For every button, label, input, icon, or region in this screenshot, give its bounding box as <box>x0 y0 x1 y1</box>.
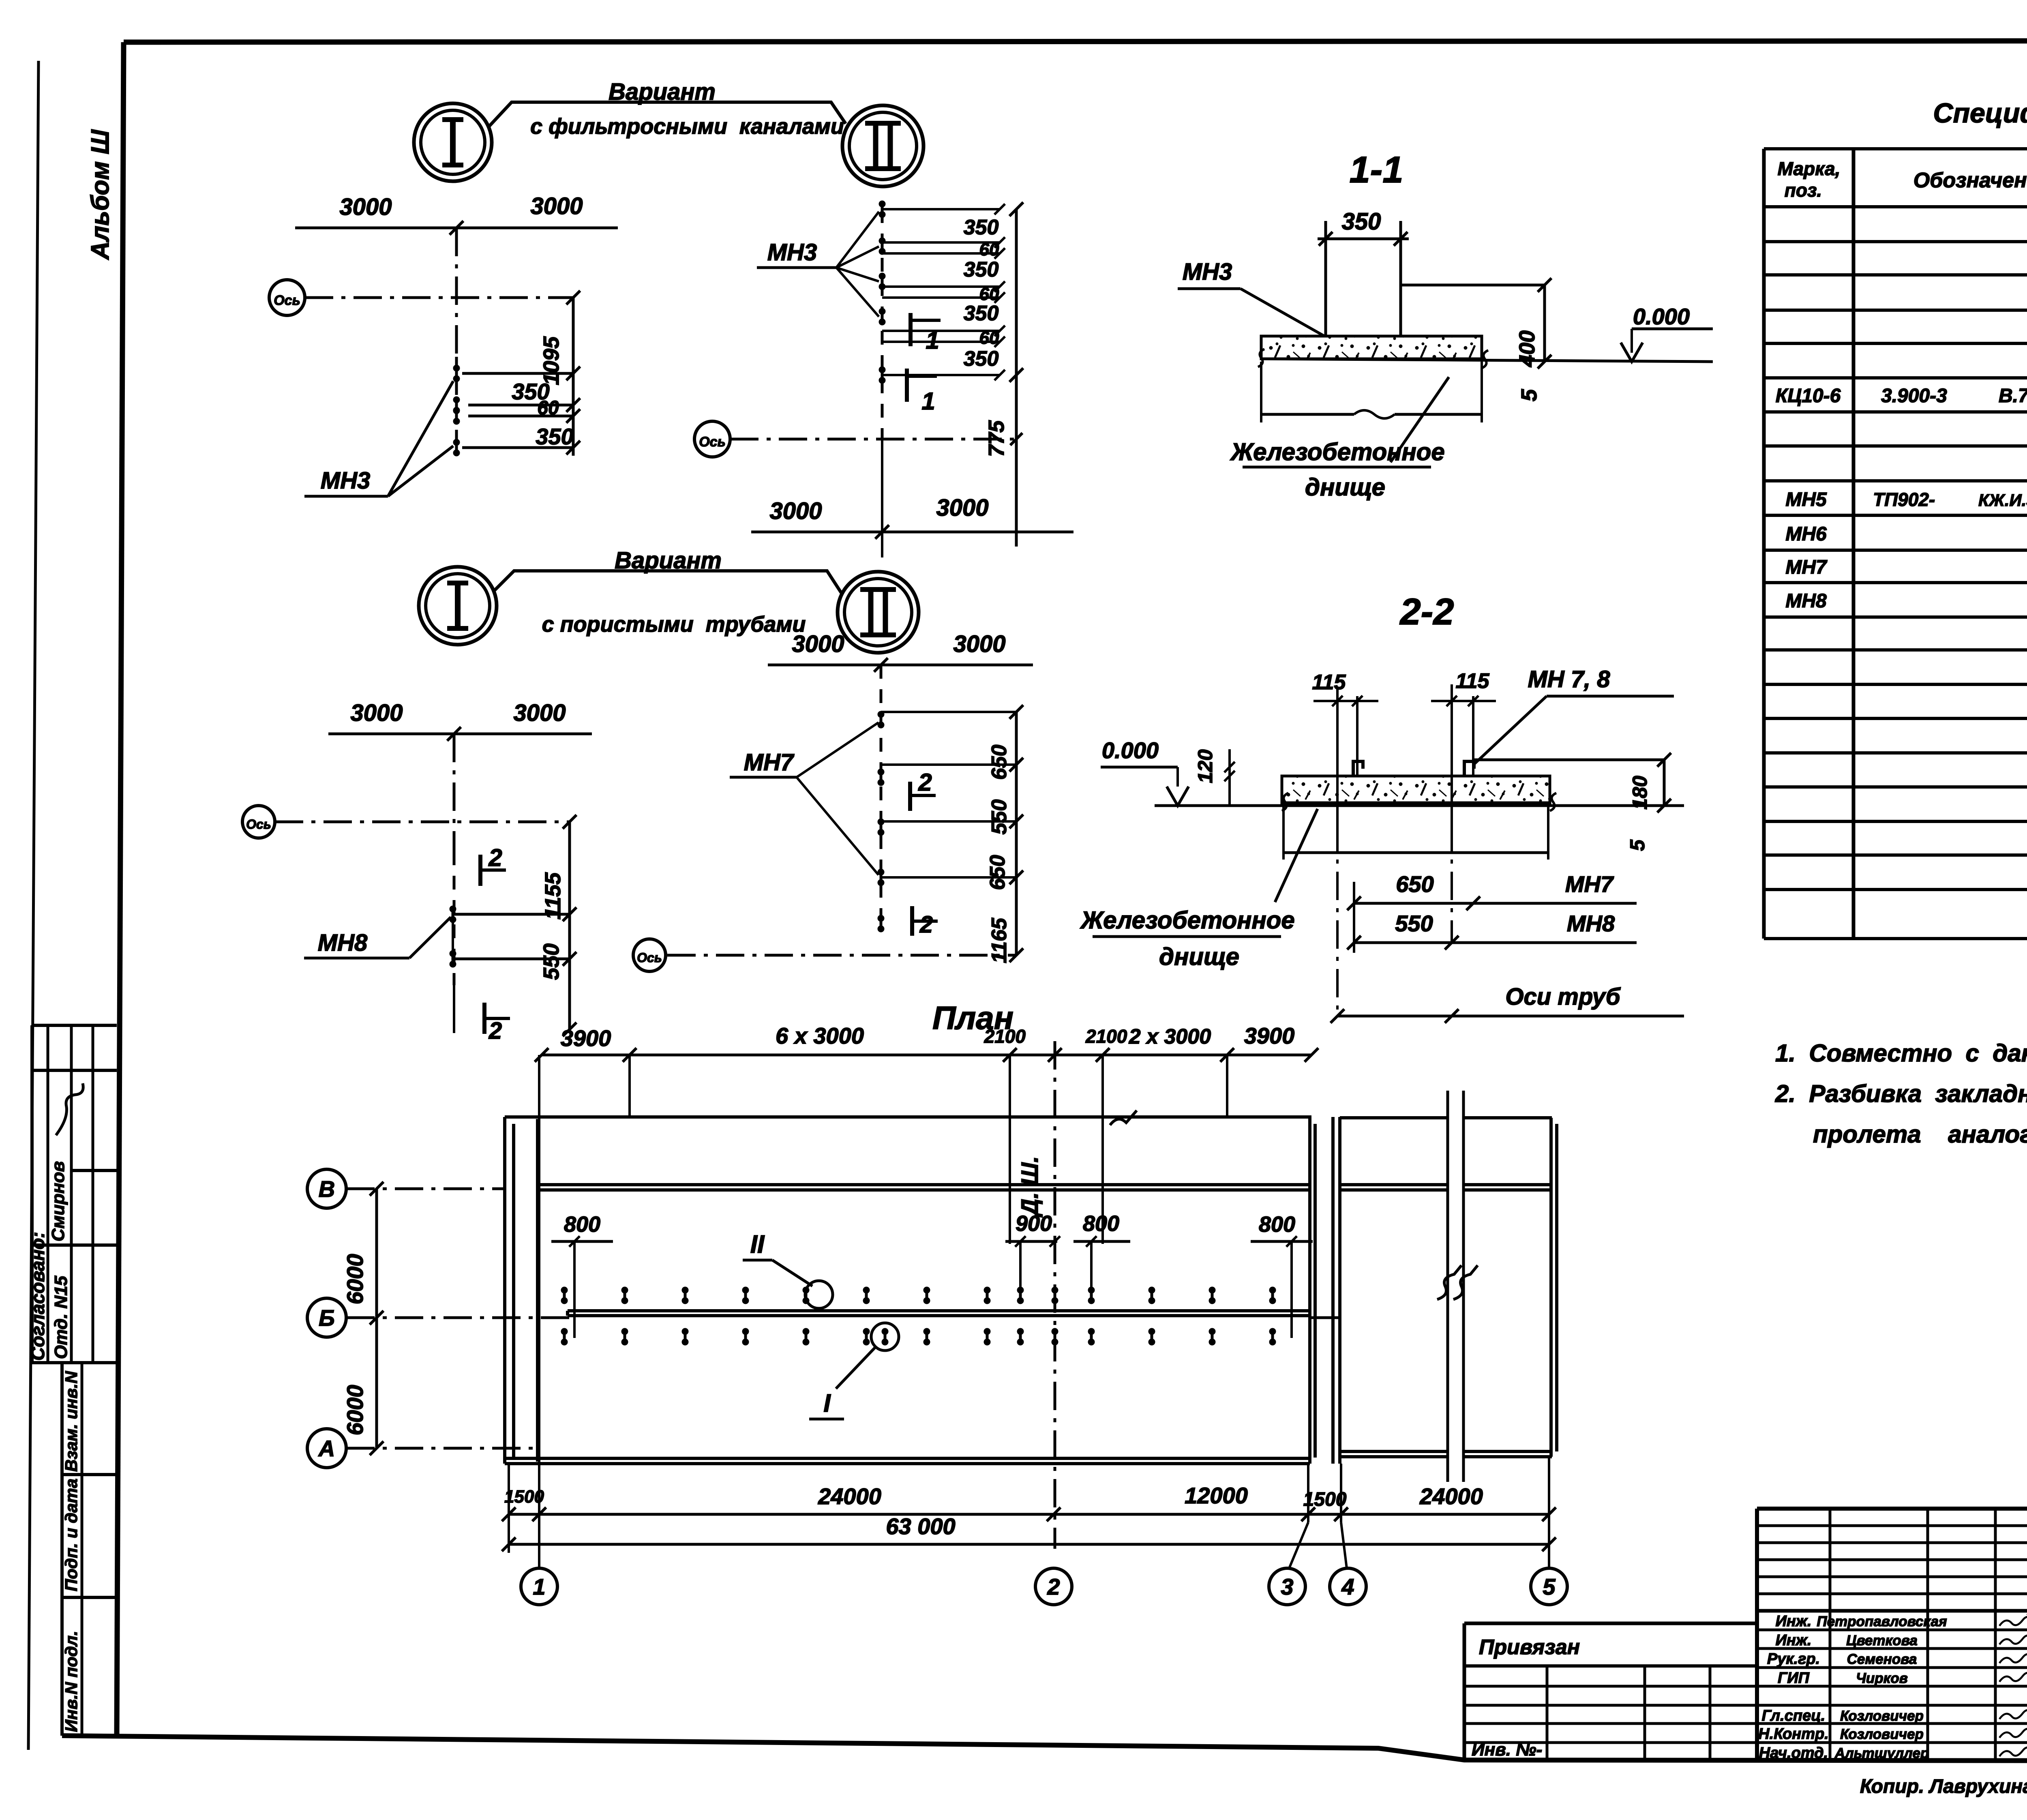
svg-text:с фильтросными каналами: с фильтросными каналами <box>530 114 844 139</box>
svg-text:Б: Б <box>319 1305 335 1331</box>
svg-text:Подп. и дата: Подп. и дата <box>62 1479 81 1591</box>
svg-text:1-1: 1-1 <box>1350 149 1403 191</box>
svg-text:550: 550 <box>988 800 1011 835</box>
svg-text:МН8: МН8 <box>1785 590 1827 612</box>
svg-text:пролета аналогична данной.: пролета аналогична данной. <box>1813 1121 2027 1148</box>
svg-text:МН7: МН7 <box>1565 871 1614 897</box>
svg-text:3000: 3000 <box>792 631 844 657</box>
svg-text:60: 60 <box>979 328 999 348</box>
svg-text:6000: 6000 <box>342 1385 368 1436</box>
svg-text:II: II <box>750 1230 765 1258</box>
svg-text:2: 2 <box>919 911 933 938</box>
svg-text:3000: 3000 <box>769 498 822 524</box>
svg-text:0.000: 0.000 <box>1102 737 1159 763</box>
svg-text:КЖ.И.3.0.07: КЖ.И.3.0.07 <box>1978 491 2027 510</box>
svg-text:Д. Ш.: Д. Ш. <box>1017 1156 1043 1218</box>
svg-text:3900: 3900 <box>1244 1023 1295 1048</box>
svg-text:60: 60 <box>979 240 999 259</box>
svg-text:1155: 1155 <box>541 872 565 920</box>
svg-text:МН 7, 8: МН 7, 8 <box>1528 666 1610 692</box>
svg-text:Ось: Ось <box>637 950 662 965</box>
svg-text:2: 2 <box>488 844 502 871</box>
svg-text:3000: 3000 <box>513 700 566 726</box>
svg-text:МН7: МН7 <box>1785 557 1828 578</box>
svg-text:Инж.: Инж. <box>1776 1613 1812 1630</box>
svg-text:В: В <box>319 1176 335 1202</box>
svg-text:800: 800 <box>564 1212 600 1237</box>
svg-text:Железобетонное: Железобетонное <box>1230 438 1445 465</box>
svg-text:Железобетонное: Железобетонное <box>1080 907 1295 934</box>
svg-text:6000: 6000 <box>342 1254 368 1305</box>
svg-text:ГИП: ГИП <box>1778 1670 1810 1687</box>
svg-text:1: 1 <box>533 1574 545 1599</box>
svg-text:Ось: Ось <box>246 817 271 832</box>
svg-text:650: 650 <box>988 745 1011 780</box>
svg-text:МН3: МН3 <box>1183 259 1232 285</box>
svg-text:800: 800 <box>1083 1211 1119 1236</box>
svg-text:12000: 12000 <box>1185 1483 1248 1508</box>
svg-text:350: 350 <box>964 216 999 239</box>
svg-text:МН8: МН8 <box>318 930 368 956</box>
svg-text:Привязан: Привязан <box>1479 1636 1580 1659</box>
svg-text:Инв. №-: Инв. №- <box>1472 1740 1542 1760</box>
svg-text:650: 650 <box>986 855 1009 890</box>
svg-text:3000: 3000 <box>953 631 1005 657</box>
svg-text:МН3: МН3 <box>767 239 817 266</box>
svg-text:350: 350 <box>536 424 573 449</box>
svg-text:6 x 3000: 6 x 3000 <box>776 1023 864 1048</box>
svg-text:2100: 2100 <box>984 1026 1026 1047</box>
svg-text:1. Совместно с данным см: 1. Совместно с данным см. л.л. КЖ-46,47. <box>1775 1040 2027 1067</box>
svg-text:550: 550 <box>539 943 564 980</box>
svg-text:Ось: Ось <box>699 434 726 450</box>
svg-text:0.000: 0.000 <box>1633 304 1690 329</box>
svg-text:Н.Контр.: Н.Контр. <box>1758 1726 1829 1743</box>
svg-text:2100: 2100 <box>1085 1026 1127 1047</box>
svg-text:Вариант: Вариант <box>615 547 722 574</box>
svg-text:Чирков: Чирков <box>1856 1670 1908 1686</box>
svg-text:350: 350 <box>964 302 999 325</box>
svg-text:Нач.отд.: Нач.отд. <box>1759 1745 1828 1762</box>
svg-text:днище: днище <box>1305 474 1385 501</box>
svg-text:Семенова: Семенова <box>1847 1651 1917 1667</box>
svg-text:115: 115 <box>1456 669 1490 693</box>
svg-text:Марка,: Марка, <box>1778 158 1841 179</box>
svg-text:2. Разбивка закладных изде: 2. Разбивка закладных изделий для второг… <box>1775 1080 2027 1107</box>
svg-text:24000: 24000 <box>818 1483 881 1509</box>
svg-text:Гл.спец.: Гл.спец. <box>1762 1707 1826 1724</box>
svg-text:3: 3 <box>1281 1574 1293 1599</box>
svg-text:1: 1 <box>926 327 939 354</box>
svg-text:650: 650 <box>1396 871 1433 897</box>
svg-text:Рук.гр.: Рук.гр. <box>1767 1651 1820 1668</box>
svg-text:Цветкова: Цветкова <box>1846 1633 1918 1649</box>
svg-text:350: 350 <box>964 347 999 371</box>
svg-text:24000: 24000 <box>1419 1483 1483 1509</box>
svg-text:5: 5 <box>1626 839 1649 851</box>
svg-text:Ось: Ось <box>274 293 300 308</box>
svg-text:с пористыми трубами: с пористыми трубами <box>542 612 806 637</box>
svg-text:днище: днище <box>1159 943 1239 970</box>
svg-text:ТП902-: ТП902- <box>1873 489 1935 510</box>
svg-text:60: 60 <box>537 397 559 419</box>
svg-text:КЦ10-6: КЦ10-6 <box>1776 385 1841 407</box>
svg-text:МН7: МН7 <box>744 749 795 776</box>
svg-text:Взам. инв.N: Взам. инв.N <box>62 1370 81 1472</box>
svg-text:Смирнов: Смирнов <box>48 1161 68 1241</box>
svg-text:Согласовано:: Согласовано: <box>27 1232 48 1361</box>
svg-text:350: 350 <box>964 258 999 281</box>
svg-text:5: 5 <box>1517 389 1541 401</box>
svg-text:1: 1 <box>921 388 935 415</box>
svg-text:550: 550 <box>1395 911 1433 936</box>
svg-text:Петропавловская: Петропавловская <box>1817 1614 1947 1629</box>
svg-text:Вариант: Вариант <box>609 79 716 105</box>
svg-text:5: 5 <box>1543 1574 1556 1599</box>
svg-text:Альбом Ш: Альбом Ш <box>86 129 114 261</box>
svg-text:Альтшуллер: Альтшуллер <box>1834 1745 1929 1761</box>
svg-text:МН6: МН6 <box>1785 523 1827 545</box>
svg-text:3.900-3: 3.900-3 <box>1881 385 1947 407</box>
svg-text:3000: 3000 <box>350 700 403 726</box>
svg-text:Инв.N подл.: Инв.N подл. <box>62 1631 81 1732</box>
svg-text:Обозначение: Обозначение <box>1913 169 2027 192</box>
svg-text:2: 2 <box>1047 1574 1060 1599</box>
svg-text:60: 60 <box>979 284 999 304</box>
svg-text:800: 800 <box>1259 1212 1295 1237</box>
svg-text:3000: 3000 <box>936 495 988 521</box>
svg-text:А: А <box>318 1436 335 1461</box>
svg-text:поз.: поз. <box>1785 180 1822 201</box>
svg-text:1095: 1095 <box>539 336 564 385</box>
svg-text:350: 350 <box>1342 208 1381 235</box>
svg-text:Оси труб: Оси труб <box>1505 984 1621 1010</box>
svg-text:I: I <box>823 1389 831 1417</box>
svg-text:3900: 3900 <box>561 1025 611 1051</box>
svg-text:2: 2 <box>489 1018 502 1044</box>
svg-text:3000: 3000 <box>530 193 583 219</box>
svg-text:МН5: МН5 <box>1785 489 1827 510</box>
svg-text:Копир. Лаврухина: Копир. Лаврухина <box>1860 1776 2027 1797</box>
svg-text:900: 900 <box>1016 1211 1052 1236</box>
svg-text:Спецификация элементов на: Спецификация элементов на блок <box>1933 98 2027 129</box>
svg-text:63 000: 63 000 <box>886 1513 955 1539</box>
svg-text:2-2: 2-2 <box>1399 591 1454 632</box>
svg-text:2: 2 <box>918 769 932 796</box>
svg-text:МН8: МН8 <box>1567 911 1615 936</box>
svg-text:115: 115 <box>1312 671 1346 694</box>
svg-text:Инж.: Инж. <box>1776 1632 1812 1649</box>
svg-text:2 x 3000: 2 x 3000 <box>1129 1025 1211 1048</box>
svg-text:120: 120 <box>1194 749 1217 783</box>
svg-text:3000: 3000 <box>339 194 392 220</box>
svg-text:Козловичер: Козловичер <box>1840 1726 1924 1742</box>
svg-text:4: 4 <box>1341 1574 1354 1599</box>
svg-text:МН3: МН3 <box>321 467 370 494</box>
svg-text:Козловичер: Козловичер <box>1840 1708 1924 1724</box>
svg-text:Отд. N15: Отд. N15 <box>51 1276 71 1359</box>
svg-text:1500: 1500 <box>504 1487 544 1507</box>
svg-text:В.7: В.7 <box>1999 385 2027 407</box>
